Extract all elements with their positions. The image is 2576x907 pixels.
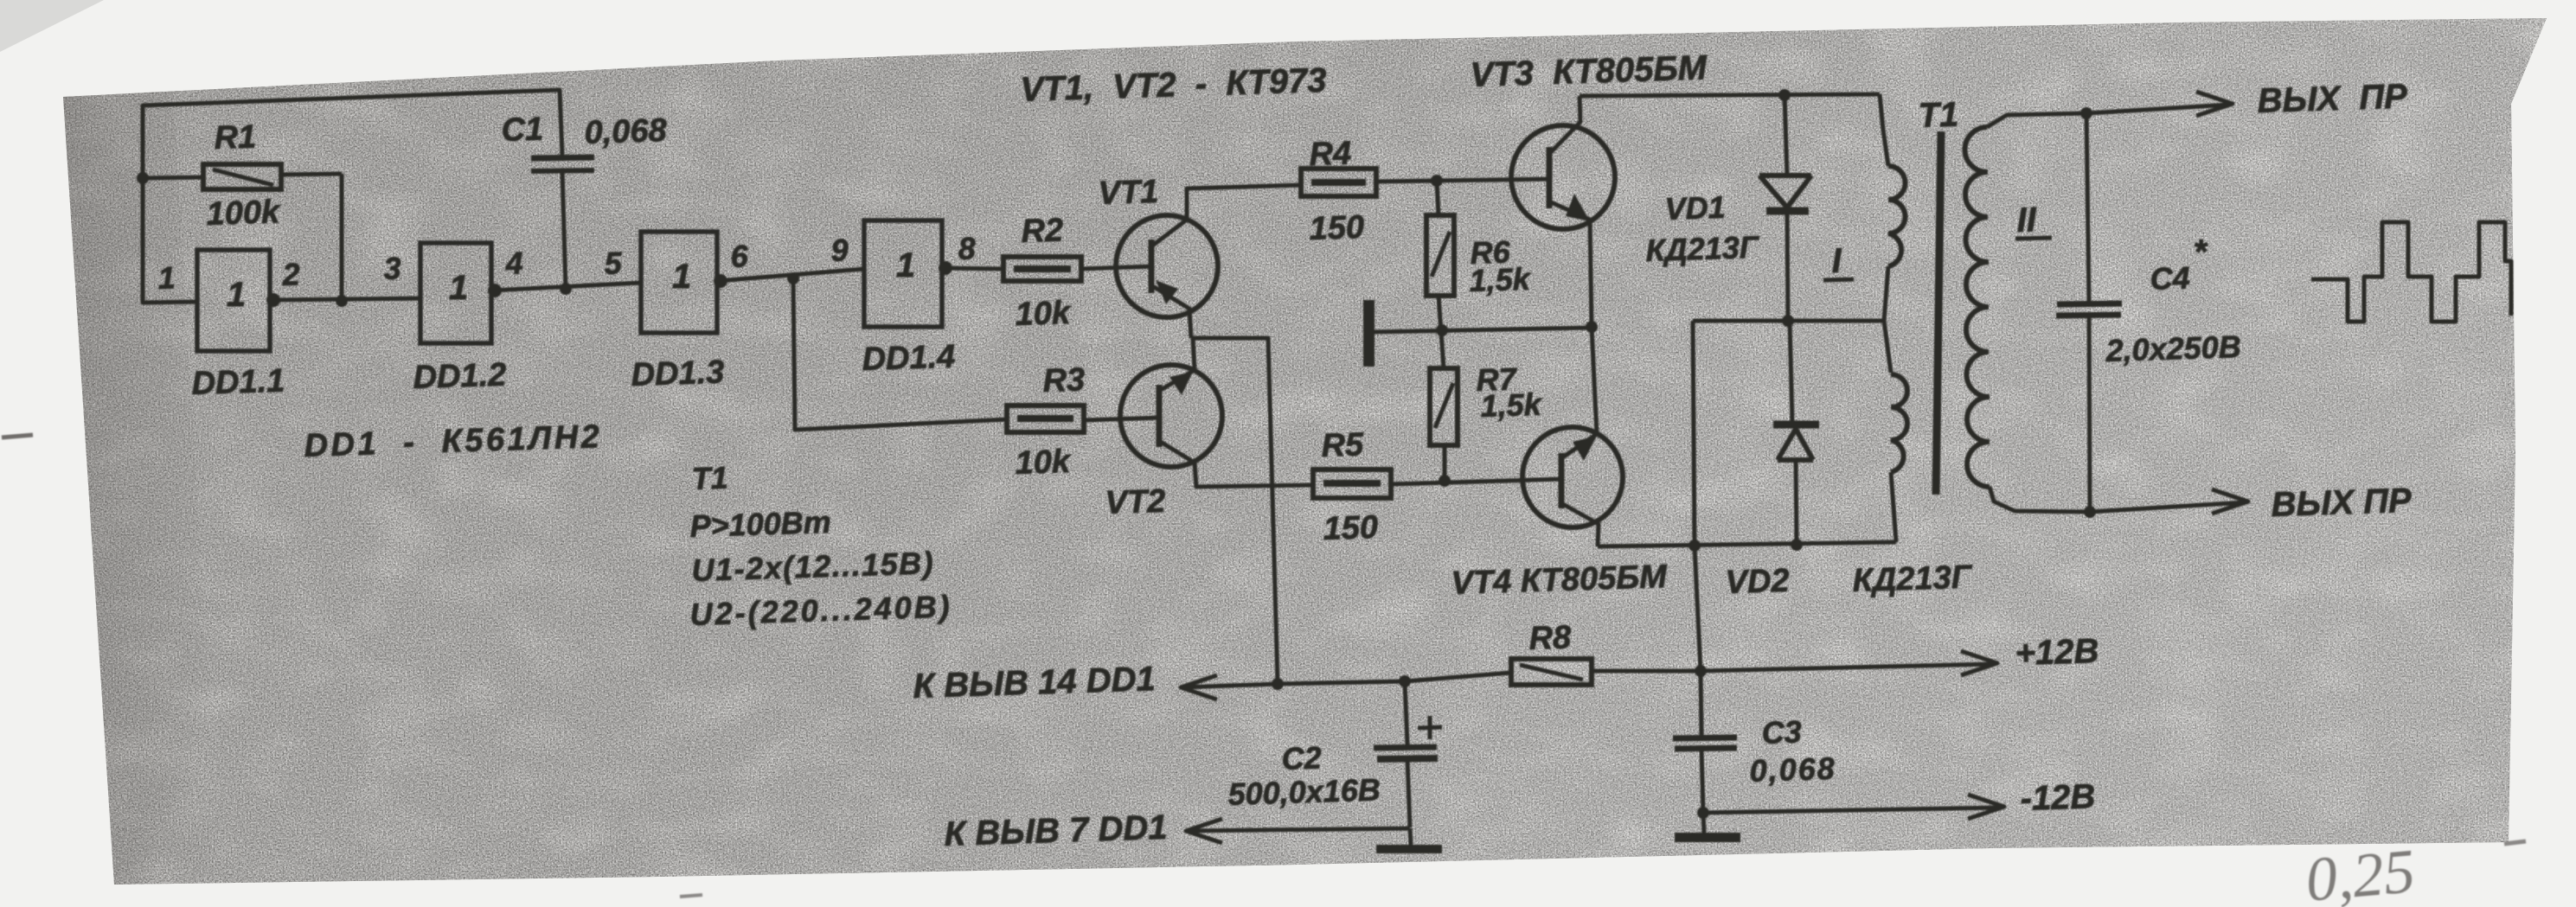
VT2 emitter — [1159, 338, 1195, 391]
wire bottom plus rail — [1181, 673, 1511, 687]
svg-text:C3: C3 — [1761, 714, 1802, 751]
svg-text:R8: R8 — [1528, 619, 1573, 657]
VT4 base bar — [1559, 453, 1565, 508]
node R6 top junction — [1431, 175, 1443, 187]
node VD1 top — [1778, 89, 1791, 101]
node R1-pin2 junction — [336, 295, 348, 307]
VT1 collector — [1151, 185, 1301, 246]
wire top feedback rail — [143, 90, 562, 178]
margin mark left — [2, 435, 33, 438]
resistor R1 — [143, 177, 203, 178]
svg-text:-12В: -12В — [2020, 777, 2096, 818]
svg-text:1,5k: 1,5k — [1480, 386, 1543, 424]
svg-text:R5: R5 — [1321, 426, 1365, 464]
node bottom rail crossing — [1688, 540, 1701, 552]
R1 slash — [213, 169, 273, 185]
wire node bar to emitters — [1373, 328, 1592, 332]
pencil dash right — [2504, 841, 2526, 844]
DD1.2 output bubble — [488, 284, 502, 297]
node C3 top junction — [1695, 665, 1707, 677]
svg-text:100k: 100k — [206, 194, 282, 233]
svg-text:DD1.2: DD1.2 — [413, 357, 507, 396]
capacitor C2 — [1405, 681, 1407, 744]
node feedback junction — [787, 272, 799, 284]
svg-text:VT4 КТ805БМ: VT4 КТ805БМ — [1451, 559, 1669, 602]
VT1 base bar — [1149, 240, 1155, 293]
wire R6-R7 link — [1439, 296, 1444, 368]
capacitor C1 — [531, 157, 594, 158]
inverter DD1.2 — [420, 243, 491, 343]
VT2 base bar — [1157, 385, 1163, 447]
diode VD2 — [1790, 321, 1792, 423]
diode VD1 — [1785, 95, 1787, 176]
transformer core — [1936, 131, 1941, 495]
node emitters junction — [1586, 321, 1598, 333]
svg-text:4: 4 — [504, 245, 523, 281]
DD1.4 output bubble — [939, 261, 952, 275]
svg-text:150: 150 — [1323, 509, 1379, 547]
svg-text:VT3 КТ805БМ: VT3 КТ805БМ — [1470, 48, 1708, 94]
inverter DD1.1 — [197, 250, 270, 351]
node C3 bottom junction — [1697, 807, 1709, 819]
resistor R6 — [1426, 215, 1454, 296]
chassis bar C3 — [1675, 833, 1740, 842]
waveform — [2311, 222, 2511, 322]
primary winding lower — [1891, 374, 1907, 472]
inverter DD1.4 — [864, 220, 942, 327]
svg-text:3: 3 — [383, 250, 401, 286]
VT4 emitter arrow — [1573, 436, 1597, 461]
svg-text:VD1: VD1 — [1664, 189, 1726, 227]
node VD2 bottom — [1791, 539, 1803, 551]
wire R5 to VT4 base — [1391, 479, 1562, 484]
wire primary lower link top — [1884, 321, 1891, 373]
svg-text:1: 1 — [449, 269, 468, 307]
wire primary mid link — [1693, 266, 1888, 321]
wire R8 to plus12 — [1592, 664, 1994, 671]
wire primary lower bottom link — [1891, 472, 1896, 542]
wire left down to pin 1 — [143, 178, 197, 303]
wire R4 to VT3 base — [1376, 179, 1549, 182]
wire chassis stub C3 — [1703, 813, 1704, 833]
inverter DD1.3 — [641, 232, 717, 333]
wire R7 bottom stub — [1443, 445, 1447, 479]
wire K VYV 7 — [1186, 828, 1410, 831]
VT3 base bar — [1547, 147, 1553, 208]
arrow out top — [2196, 92, 2233, 116]
wire bottom rail — [1598, 542, 1896, 546]
node C4 bottom — [2084, 506, 2096, 518]
resistor R4 — [1301, 169, 1376, 196]
svg-text:10k: 10k — [1015, 444, 1073, 482]
svg-text:1: 1 — [157, 259, 176, 296]
transistor VT1 — [1116, 215, 1218, 317]
svg-text:1: 1 — [896, 246, 915, 284]
svg-text:0,068: 0,068 — [584, 112, 668, 151]
secondary winding — [1965, 127, 1990, 487]
capacitor C3 — [1673, 738, 1737, 738]
VT2 collector — [1159, 441, 1313, 487]
node C4 top — [2080, 107, 2092, 119]
svg-text:10k: 10k — [1015, 295, 1073, 333]
wire pin6 to pin9 — [717, 269, 864, 281]
svg-text:VD2: VD2 — [1725, 563, 1790, 601]
resistor R7 — [1430, 368, 1458, 445]
wire secondary top out — [1987, 105, 2229, 127]
primary winding upper — [1888, 166, 1906, 266]
svg-text:DD1.4: DD1.4 — [862, 339, 956, 378]
arrow K VYV 7 — [1186, 819, 1222, 843]
svg-text:К ВЫВ 14 DD1: К ВЫВ 14 DD1 — [913, 660, 1156, 706]
wire secondary bottom out — [1990, 487, 2245, 512]
svg-text:T1: T1 — [691, 460, 728, 496]
svg-text:КД213Г: КД213Г — [1645, 229, 1760, 268]
wire pin8 to R2 — [942, 268, 1003, 269]
svg-text:К ВЫВ 7 DD1: К ВЫВ 7 DD1 — [944, 808, 1168, 853]
VT3 collector — [1549, 96, 1580, 154]
svg-text:C1: C1 — [501, 111, 544, 149]
node emitters bottom junction — [1272, 678, 1284, 690]
svg-text:VT1: VT1 — [1098, 174, 1159, 212]
wire top rail — [1580, 94, 1880, 96]
svg-text:150: 150 — [1309, 209, 1365, 247]
transistor VT4 — [1522, 427, 1623, 527]
wire R3 to VT2 base — [1084, 418, 1161, 420]
svg-text:R1: R1 — [214, 118, 257, 156]
svg-text:+12В: +12В — [2015, 632, 2099, 673]
svg-text:R3: R3 — [1042, 361, 1086, 399]
svg-text:DD1.1: DD1.1 — [191, 363, 285, 402]
resistor R5 — [1313, 469, 1391, 498]
svg-text:R4: R4 — [1309, 135, 1352, 173]
wire R2 to VT1 base — [1081, 266, 1153, 269]
svg-text:9: 9 — [830, 232, 849, 268]
pencil dash mid — [680, 895, 702, 897]
wire minus12 rail — [1703, 808, 2001, 813]
VT4 collector — [1561, 503, 1599, 546]
svg-text:R2: R2 — [1021, 212, 1064, 250]
wire pin2 to pin3 — [270, 298, 420, 300]
resistor R2 — [1003, 257, 1081, 281]
capacitor plate bar — [1363, 300, 1375, 367]
arrow minus12 — [1968, 795, 2004, 819]
capacitor C4 — [2086, 113, 2089, 303]
transistor VT3 — [1511, 125, 1615, 229]
svg-text:2: 2 — [281, 256, 300, 292]
wire pin4 to pin5 — [491, 283, 641, 291]
svg-text:5: 5 — [604, 245, 623, 281]
svg-text:КД213Г: КД213Г — [1852, 559, 1973, 599]
svg-text:C4: C4 — [2150, 260, 2190, 297]
chassis bar C2 — [1376, 845, 1442, 853]
node C1 bottom junction — [560, 283, 572, 295]
VT3 emitter arrow — [1566, 194, 1590, 221]
wire feedback down to R3 — [793, 278, 1007, 430]
wire C2 bottom stub — [1410, 828, 1411, 845]
wire R6 top stub — [1437, 181, 1439, 215]
arrow K VYV 14 — [1181, 675, 1217, 699]
svg-text:ВЫХ ПР: ВЫХ ПР — [2271, 482, 2413, 524]
svg-text:T1: T1 — [1918, 96, 1959, 135]
svg-text:P>100Вт: P>100Вт — [689, 504, 831, 544]
arrow plus12 — [1961, 651, 1997, 675]
wire primary top link — [1880, 94, 1888, 166]
svg-text:8: 8 — [958, 230, 976, 266]
wire VD column down — [1695, 546, 1701, 735]
node C2 top junction — [1399, 675, 1411, 687]
svg-text:0,068: 0,068 — [1749, 751, 1836, 789]
svg-text:DD1.3: DD1.3 — [631, 354, 725, 393]
VT1 emitter — [1151, 285, 1191, 338]
VT2 emitter arrow — [1169, 372, 1193, 395]
VT1 emitter arrow — [1156, 280, 1178, 304]
node R6R7 on node wire — [1436, 324, 1448, 336]
transistor VT2 — [1120, 365, 1222, 467]
wire R1 right down — [340, 174, 344, 301]
svg-text:6: 6 — [730, 238, 749, 274]
svg-text:500,0x16В: 500,0x16В — [1227, 771, 1381, 812]
DD1.3 output bubble — [714, 274, 727, 288]
svg-text:C2: C2 — [1281, 740, 1322, 776]
svg-text:1: 1 — [672, 258, 691, 296]
svg-text:II: II — [2016, 201, 2037, 240]
VT3 emitter — [1549, 201, 1592, 327]
svg-text:ВЫХ ПР: ВЫХ ПР — [2257, 78, 2408, 120]
DD1.1 output bubble — [266, 293, 280, 307]
node R7 bottom junction — [1439, 475, 1451, 487]
svg-text:2,0x250В: 2,0x250В — [2105, 329, 2241, 368]
arrow out bottom — [2212, 489, 2248, 514]
svg-text:VT2: VT2 — [1105, 483, 1166, 521]
wire emitters join — [1191, 338, 1278, 683]
svg-text:1: 1 — [227, 276, 246, 314]
node VD1 bottom — [1782, 315, 1794, 327]
resistor R3 — [1007, 406, 1084, 432]
VT4 emitter — [1561, 327, 1597, 458]
wire mid to bottom left — [1693, 321, 1695, 546]
node R1 left junction — [137, 172, 149, 184]
resistor R8 — [1511, 659, 1592, 685]
svg-text:1,5k: 1,5k — [1469, 261, 1532, 298]
svg-text:0,25: 0,25 — [2303, 836, 2417, 907]
